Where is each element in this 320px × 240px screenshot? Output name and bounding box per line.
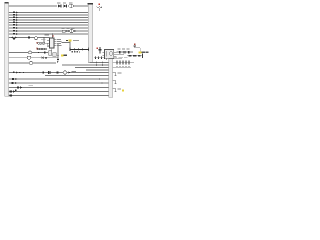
junction node D [57,55,58,56]
wire net22 y75.5 [45,75,109,77]
diode D2 [64,5,67,8]
wire net19 y58.7 right [113,58,123,60]
wire net11 y37.5 [9,37,50,39]
wire net17 y70 [86,69,109,71]
wire y45.9 [48,45,57,47]
wire net13c [44,57,58,59]
junction node A [43,37,45,39]
wire net14b [33,62,56,64]
junction node B [52,33,54,35]
wire net20 y67.5b [113,67,132,69]
regulator U1 [47,38,57,48]
inductor L4 [38,42,45,44]
label under W1 [72,51,81,53]
pin marks y79 [12,78,100,80]
inductor L5 [38,48,47,50]
wire net25 y87.5 [9,87,109,89]
splice ticks [97,61,103,66]
relay K1 [103,50,125,61]
lamp L2 [27,56,31,59]
connector J2 center bus [88,3,93,62]
wire net24 y83 [9,82,109,84]
motor M1 [28,51,32,54]
wire net10 y34 [9,33,89,35]
highlight H1 [69,39,72,41]
wire net15 y65 [62,64,109,66]
mark at H1 [66,40,68,41]
label right G3 [118,88,121,91]
diode row D4-D7 [94,56,106,59]
connector J1 left bus [4,2,8,96]
ground G3 right [113,89,117,92]
label right of H2 [64,55,67,56]
label above L4 [41,38,46,41]
label right of H3 [142,52,149,54]
wire x47.5 down [47,43,49,46]
label y85 mid [29,84,34,87]
wire U1 bottom [51,48,53,51]
pin marks rows [12,11,31,39]
capacitor C4 caps on wire [120,51,130,54]
labels above K2 [62,27,75,30]
wire net1b y6 right [74,5,89,7]
wire net9 y31 [9,30,89,32]
pin marks y95.5 [10,95,13,97]
wire net21 y72.5 [9,72,109,74]
marker red3 [35,42,38,44]
label right of net19 [114,56,128,59]
diode D1 [58,5,61,8]
switch S1 marks [44,52,46,54]
wire K1 out y52 [117,51,134,53]
pin marks small cluster [57,59,59,63]
marker red2 [97,48,98,49]
wire net2 y12.5 [9,12,89,14]
wire node B to U1 [52,34,54,38]
horn B1 [63,71,67,74]
antenna symbol A1 [97,4,103,11]
relay K2 on net9 [62,29,76,32]
highlight H3 [138,51,141,53]
wire net16 y67.5 [75,67,109,69]
wire U1 out y42.5 [62,42,71,44]
wire net18 y62.5 [90,62,109,64]
diode pair D3 [42,57,47,59]
wire net3 y15 [9,14,89,16]
wire net23 y79 [9,78,109,80]
wire net12 y52.5 [9,52,29,54]
wire net1 y6 [9,5,58,7]
wire x58 vertical [57,44,59,61]
connector J3 right bus [109,59,113,98]
capacitor C3 [99,47,102,54]
wire net13b [31,57,41,59]
wire net4 y17.5 [9,17,89,19]
inductor FL1 [133,44,140,52]
wire L4 to L5 [45,42,48,44]
marker red1 [53,35,54,36]
module U2 [49,51,57,56]
highlight H4 [122,90,124,92]
wire net26 y91.5 [9,91,109,93]
highlight H2 [61,54,63,56]
resistor network R1 [127,54,143,59]
labels above C4 [118,48,130,51]
wire net7 y25 [9,24,89,26]
wire net6 y22.5 [9,22,89,24]
label right of B1 [72,70,77,73]
wire net27 y95.5 [9,95,109,97]
junction node C [38,52,40,54]
pin marks y87.5 [15,86,23,91]
wire x70 down [69,42,71,50]
pin marks y83 [12,82,103,84]
label top components [57,2,72,5]
capacitor bank C5 [113,61,135,67]
lamp L3 [29,62,33,65]
pin marks y91.5 [10,90,16,92]
wire net12b [32,52,48,54]
wire net14 y63 [9,62,30,64]
wire node A down [43,38,45,43]
wire net13 y57.7 [9,57,28,59]
marker red4 [35,48,38,50]
cable W1 [70,48,89,52]
label right G1 [118,72,122,75]
fuse F1 [69,4,74,8]
lamp L1 [34,37,38,40]
label right of H1 [73,39,79,42]
wire net8 y28 [9,27,89,29]
labels U1 pins [45,35,62,46]
pin marks y72.5 [13,71,71,74]
ground G1 right [113,73,117,76]
ground G2 right [113,81,117,84]
wire net5 y20 [9,19,89,21]
